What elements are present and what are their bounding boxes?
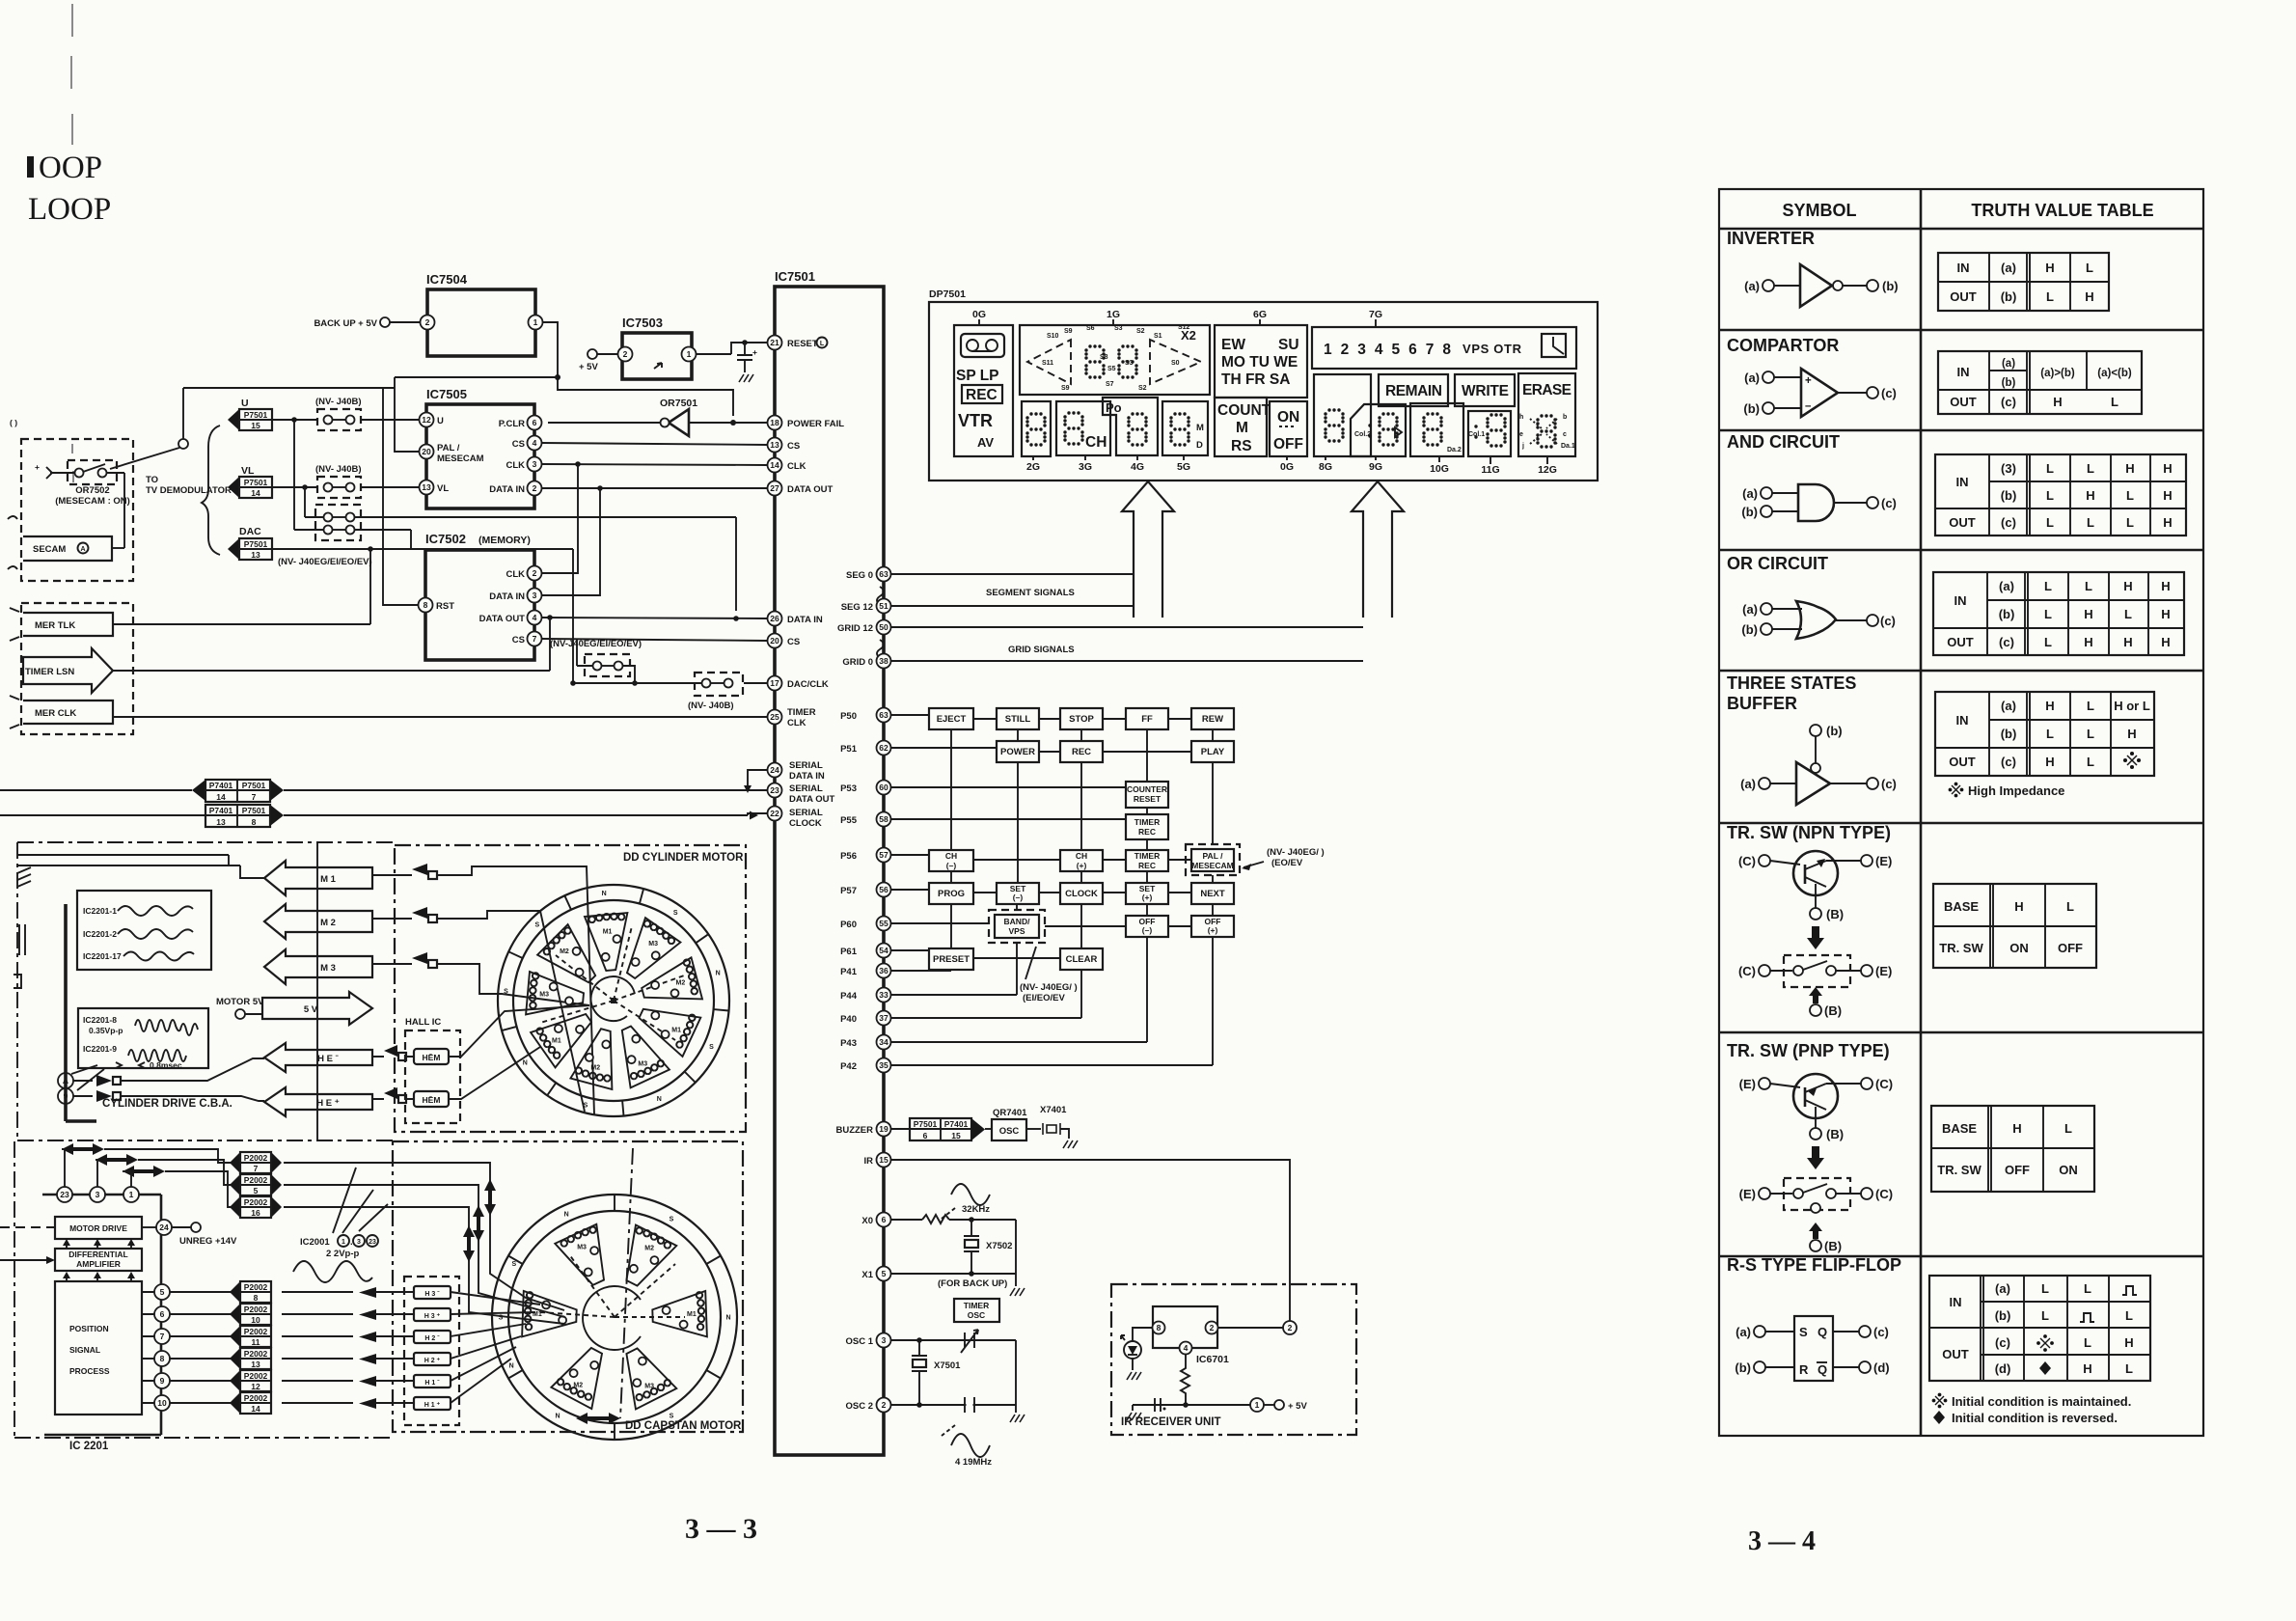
chain boundary top bbox=[17, 841, 395, 843]
thick equivalence arrow bbox=[1807, 926, 1824, 949]
svg-text:REC: REC bbox=[1072, 747, 1091, 757]
svg-text:(+): (+) bbox=[1077, 861, 1087, 870]
pin 20 PAL/MESECAM bbox=[420, 445, 434, 459]
switch equivalent dashed box bbox=[1784, 1178, 1850, 1210]
wire OSC2 bbox=[891, 1404, 1016, 1406]
pin 4 DATA OUT bbox=[528, 611, 542, 625]
three-state buffer symbol bbox=[1796, 762, 1830, 805]
digit box 4G with Po bbox=[1103, 398, 1158, 455]
svg-text:1G: 1G bbox=[1107, 309, 1120, 320]
svg-text:(a): (a) bbox=[1999, 579, 2014, 593]
svg-text:REMAIN: REMAIN bbox=[1385, 383, 1442, 399]
wire RST bbox=[383, 388, 418, 605]
wire horizontal y391 bbox=[395, 376, 558, 378]
svg-text:2 2Vp-p: 2 2Vp-p bbox=[326, 1249, 360, 1259]
svg-text:IN: IN bbox=[1954, 593, 1967, 608]
svg-text:M2: M2 bbox=[560, 948, 569, 955]
svg-text:BASE: BASE bbox=[1944, 899, 1979, 914]
svg-text:VPS: VPS bbox=[1008, 926, 1025, 936]
wire P43 row bbox=[891, 937, 1147, 1042]
block REMAIN bbox=[1379, 374, 1448, 406]
svg-text:2: 2 bbox=[623, 349, 628, 359]
svg-text:VTR: VTR bbox=[958, 411, 993, 430]
svg-text:X7501: X7501 bbox=[934, 1360, 961, 1371]
svg-text:M2: M2 bbox=[676, 979, 686, 986]
H2+ box bbox=[414, 1353, 451, 1365]
svg-text:7G: 7G bbox=[1369, 309, 1382, 320]
leader dashes bbox=[942, 1208, 955, 1219]
svg-text:(E): (E) bbox=[1875, 964, 1892, 978]
squiggle lead bbox=[10, 608, 19, 641]
svg-text:M 1: M 1 bbox=[320, 874, 337, 885]
svg-text:11: 11 bbox=[252, 1337, 260, 1347]
svg-text:P7401: P7401 bbox=[209, 781, 233, 790]
wire PAL/MESECAM riser bbox=[395, 377, 421, 452]
up arrow to switch bbox=[1809, 987, 1822, 1003]
svg-text:(NV- J40B): (NV- J40B) bbox=[315, 397, 362, 407]
pin 56 P57 bbox=[877, 883, 891, 897]
oscillator OSC box bbox=[992, 1119, 1026, 1140]
svg-text:DD CYLINDER MOTOR: DD CYLINDER MOTOR bbox=[623, 852, 744, 864]
PNP truth table grid bbox=[1931, 1106, 2094, 1192]
coil bbox=[544, 927, 571, 954]
svg-text:S12: S12 bbox=[1178, 324, 1190, 331]
pin 25 TIMER CLK bbox=[768, 710, 782, 725]
pin 6 P.CLR bbox=[528, 416, 542, 430]
svg-text:4 19MHz: 4 19MHz bbox=[955, 1457, 992, 1468]
dashed radial index lines bbox=[540, 926, 687, 1040]
key TIMER REC bbox=[1126, 814, 1168, 839]
svg-text:+: + bbox=[1805, 375, 1812, 387]
junction bbox=[969, 1217, 974, 1223]
wire to pin24 bbox=[142, 1226, 156, 1228]
svg-text:ERASE: ERASE bbox=[1522, 382, 1572, 398]
pin 19 BUZZER bbox=[877, 1122, 891, 1137]
wire CLK net bbox=[542, 464, 767, 465]
wire bbox=[1026, 1128, 1041, 1130]
stator arm M1 lower right bbox=[640, 1009, 701, 1057]
svg-text:(–): (–) bbox=[946, 861, 957, 870]
thick double arrow v3 bbox=[463, 1225, 475, 1262]
switch contacts bbox=[1793, 1189, 1803, 1198]
svg-text:H: H bbox=[2012, 1121, 2021, 1136]
pin 8 RST bbox=[419, 598, 433, 613]
svg-text:VPS OTR: VPS OTR bbox=[1462, 342, 1522, 356]
wire buzzer bbox=[891, 1128, 910, 1130]
svg-text:N: N bbox=[725, 1315, 730, 1322]
svg-text:12G: 12G bbox=[1538, 464, 1557, 476]
svg-text:High Impedance: High Impedance bbox=[1968, 783, 2064, 798]
wire P56 row bbox=[891, 855, 1191, 860]
svg-text:P43: P43 bbox=[840, 1038, 857, 1049]
wires H rows to arrows bbox=[282, 1292, 353, 1403]
wire X0 with resistor bbox=[891, 1215, 1016, 1223]
svg-text:L: L bbox=[2046, 461, 2054, 476]
svg-text:INVERTER: INVERTER bbox=[1727, 229, 1815, 248]
coil bbox=[576, 1067, 611, 1081]
svg-text:MER TLK: MER TLK bbox=[35, 620, 75, 631]
wire left stub with arrow bbox=[0, 1259, 47, 1261]
svg-text:M: M bbox=[1236, 420, 1248, 436]
svg-text:(NV- J40EG/ ): (NV- J40EG/ ) bbox=[1267, 847, 1325, 858]
wire bbox=[1833, 1331, 1859, 1333]
coil bbox=[676, 1015, 695, 1048]
svg-text:H E ˉ: H E ˉ bbox=[317, 1054, 339, 1064]
wire row4 bbox=[294, 530, 411, 549]
arrow HE+ bbox=[264, 1087, 372, 1116]
svg-text:(NV- J40EG/EI/EO/EV): (NV- J40EG/EI/EO/EV) bbox=[278, 557, 372, 567]
arrow M2 bbox=[264, 904, 372, 939]
digit box 8G bbox=[1314, 374, 1371, 456]
transistor NPN symbol bbox=[1793, 851, 1838, 895]
svg-text:Da.1: Da.1 bbox=[1561, 443, 1575, 450]
wire arrows to boxes bbox=[376, 1292, 414, 1403]
wire bbox=[1264, 1404, 1274, 1406]
svg-text:(b): (b) bbox=[2001, 488, 2017, 503]
wire bbox=[110, 448, 179, 469]
arrow M3 bbox=[264, 949, 372, 984]
svg-text:DATA OUT: DATA OUT bbox=[787, 484, 834, 495]
wire row3 bbox=[305, 517, 736, 611]
key FF bbox=[1126, 708, 1168, 729]
MER TLK box bbox=[23, 613, 113, 636]
svg-text:S: S bbox=[709, 1044, 714, 1051]
svg-text:IC7502: IC7502 bbox=[425, 532, 466, 546]
ground bbox=[1010, 1415, 1025, 1422]
svg-text:P7501: P7501 bbox=[242, 781, 266, 790]
svg-text:3 — 3: 3 — 3 bbox=[685, 1513, 757, 1545]
svg-text:23: 23 bbox=[770, 785, 779, 795]
wire HEM2 into motor bbox=[449, 1047, 540, 1099]
svg-text:50: 50 bbox=[879, 622, 888, 632]
svg-text:6: 6 bbox=[533, 418, 537, 427]
svg-text:H: H bbox=[2014, 899, 2023, 914]
svg-text:AND CIRCUIT: AND CIRCUIT bbox=[1727, 432, 1840, 452]
wire column 2 bbox=[1017, 729, 1018, 910]
svg-text:(MESECAM : ON): (MESECAM : ON) bbox=[55, 496, 130, 507]
pin 63 SEG0 bbox=[877, 567, 891, 582]
svg-text:S: S bbox=[670, 1414, 674, 1420]
svg-text:POSITION: POSITION bbox=[69, 1324, 109, 1333]
svg-text:P2002: P2002 bbox=[244, 1282, 268, 1292]
connector P2002-14 bbox=[230, 1392, 240, 1414]
svg-text:(a): (a) bbox=[1742, 602, 1758, 617]
svg-text:PRESET: PRESET bbox=[933, 954, 970, 965]
svg-text:L: L bbox=[2046, 289, 2054, 304]
svg-text:L: L bbox=[2085, 579, 2092, 593]
svg-text:L: L bbox=[2087, 699, 2094, 713]
pin 2 of IC7503 bbox=[618, 347, 633, 362]
digit box 10G bbox=[1410, 403, 1463, 456]
svg-text:1: 1 bbox=[533, 317, 538, 327]
svg-text:27: 27 bbox=[770, 483, 779, 493]
svg-text:S: S bbox=[504, 989, 508, 996]
wire X1 bbox=[891, 1273, 1016, 1275]
svg-text:(a): (a) bbox=[2002, 358, 2015, 370]
svg-text:GRID 12: GRID 12 bbox=[837, 623, 873, 634]
SECAM box bbox=[23, 536, 112, 561]
wire bbox=[361, 486, 420, 488]
svg-text:(NV-J40EG/EI/EO/EV): (NV-J40EG/EI/EO/EV) bbox=[550, 639, 642, 649]
svg-text:WRITE: WRITE bbox=[1462, 383, 1509, 399]
svg-text:8: 8 bbox=[1157, 1323, 1162, 1333]
svg-text:M3: M3 bbox=[539, 992, 549, 999]
svg-text:58: 58 bbox=[879, 814, 888, 824]
svg-text:EJECT: EJECT bbox=[937, 714, 967, 725]
pin 55 P60 bbox=[877, 917, 891, 931]
svg-text:P50: P50 bbox=[840, 711, 857, 722]
node pin 2 outer bbox=[1283, 1321, 1297, 1334]
svg-text:SECAM: SECAM bbox=[33, 544, 66, 555]
wire bbox=[1834, 502, 1868, 504]
H3- box bbox=[414, 1286, 451, 1299]
svg-text:63: 63 bbox=[879, 569, 888, 579]
svg-text:2: 2 bbox=[533, 483, 537, 493]
capacitor small bbox=[1155, 1398, 1161, 1412]
svg-text:IR: IR bbox=[864, 1156, 874, 1167]
svg-text:REW: REW bbox=[1202, 714, 1223, 725]
node 0.8msec bbox=[116, 1062, 145, 1068]
svg-text:S9: S9 bbox=[1061, 385, 1070, 392]
svg-text:P42: P42 bbox=[840, 1061, 857, 1072]
svg-text:22: 22 bbox=[770, 809, 779, 818]
svg-text:(C): (C) bbox=[1738, 964, 1756, 978]
svg-text:(b): (b) bbox=[1826, 724, 1843, 738]
node pin 9 bbox=[154, 1373, 170, 1388]
wire M3 into motor bbox=[372, 964, 589, 1005]
svg-text:OUT: OUT bbox=[1942, 1347, 1969, 1361]
svg-text:(c): (c) bbox=[2001, 515, 2016, 530]
svg-text:DATA IN: DATA IN bbox=[787, 615, 823, 625]
svg-text:S2: S2 bbox=[1136, 328, 1145, 335]
svg-text:N: N bbox=[509, 1362, 514, 1369]
coil bbox=[631, 1060, 664, 1079]
svg-text:PLAY: PLAY bbox=[1201, 747, 1225, 757]
svg-text:IN: IN bbox=[1957, 261, 1970, 275]
svg-text:PAL /: PAL / bbox=[437, 443, 460, 453]
IC7504 box bbox=[427, 289, 535, 356]
svg-text:14: 14 bbox=[216, 792, 226, 802]
svg-text:BUFFER: BUFFER bbox=[1727, 694, 1797, 713]
svg-text:(+): (+) bbox=[1208, 925, 1218, 935]
H sensor dashed box bbox=[404, 1277, 459, 1425]
svg-text:DATA OUT: DATA OUT bbox=[479, 614, 526, 624]
junction bbox=[730, 420, 736, 426]
chain boundary left bbox=[16, 842, 18, 1140]
wire P61 row bbox=[891, 950, 1060, 958]
wire D1 left drop bbox=[576, 639, 578, 666]
svg-text:CLEAR: CLEAR bbox=[1066, 954, 1098, 965]
wire bbox=[1770, 1084, 1800, 1087]
connector P2002-7 bbox=[230, 1152, 240, 1173]
wire left stub bbox=[0, 1226, 55, 1228]
wire IR long bbox=[891, 1160, 1290, 1321]
connector P2002-5 bbox=[230, 1174, 240, 1195]
solid boundary right of arrows bbox=[316, 842, 318, 1140]
key EJECT bbox=[929, 708, 973, 729]
svg-text:IC6701: IC6701 bbox=[1196, 1354, 1229, 1365]
wire P41 row bbox=[891, 970, 951, 971]
wire MER TLK to DAC riser bbox=[113, 549, 370, 624]
svg-text:16: 16 bbox=[251, 1208, 260, 1218]
svg-text:X1: X1 bbox=[861, 1270, 873, 1280]
node pin 1 bbox=[123, 1187, 139, 1202]
svg-text:L: L bbox=[2084, 1281, 2091, 1296]
wire M1 into motor bbox=[372, 866, 594, 1114]
svg-text:P7401: P7401 bbox=[944, 1119, 969, 1129]
svg-text:IC2201-2: IC2201-2 bbox=[83, 929, 117, 939]
svg-text:(a): (a) bbox=[1995, 1281, 2010, 1296]
node pin 23 bbox=[57, 1187, 72, 1202]
svg-text:H 2 ˉ: H 2 ˉ bbox=[424, 1335, 440, 1342]
svg-text:L: L bbox=[2044, 635, 2052, 649]
svg-text:POWER: POWER bbox=[1000, 747, 1035, 757]
cable hatch marks bbox=[14, 867, 31, 988]
svg-text:IC2001: IC2001 bbox=[300, 1237, 330, 1248]
wire bbox=[1770, 970, 1792, 972]
jumper connector dashed bbox=[317, 409, 361, 430]
key CH minus bbox=[929, 850, 973, 871]
svg-text:OFF: OFF bbox=[2005, 1163, 2030, 1177]
svg-text:H: H bbox=[2163, 488, 2172, 503]
pin 3 DATA IN bbox=[528, 589, 542, 603]
pin 15 IR bbox=[877, 1153, 891, 1168]
svg-text:+ 5V: + 5V bbox=[1288, 1401, 1307, 1412]
wire DAC to right bbox=[272, 549, 573, 683]
key OFF minus bbox=[1126, 916, 1168, 937]
display panel DP7501 bbox=[929, 302, 1598, 481]
wire column 4 bbox=[1146, 729, 1148, 916]
thick double arrow h2 bbox=[96, 1154, 138, 1166]
svg-text:(B): (B) bbox=[1824, 1239, 1842, 1253]
coil bbox=[536, 1028, 560, 1058]
svg-text:SEG 12: SEG 12 bbox=[841, 602, 873, 613]
junction bbox=[1183, 1402, 1189, 1408]
ring dividers bbox=[508, 1195, 721, 1440]
wire DATA OUT to pin26 bbox=[542, 618, 767, 618]
connector arrow HE- bbox=[384, 1045, 397, 1057]
svg-text:H: H bbox=[2083, 1361, 2091, 1376]
junction bbox=[575, 461, 581, 467]
pin 12 U bbox=[420, 413, 434, 427]
svg-text:S3: S3 bbox=[1114, 325, 1123, 332]
svg-text:(c): (c) bbox=[1999, 635, 2014, 649]
svg-text:DATA IN: DATA IN bbox=[489, 484, 525, 495]
svg-text:10: 10 bbox=[251, 1315, 260, 1325]
connector arrow M2 feed bbox=[412, 907, 427, 919]
pin 58 P55 bbox=[877, 812, 891, 827]
key BAND/VPS dashed bbox=[989, 910, 1045, 943]
svg-text:S11: S11 bbox=[1042, 360, 1053, 367]
key OFF plus bbox=[1191, 916, 1234, 937]
svg-text:0G: 0G bbox=[972, 309, 986, 320]
svg-text:H 1 ˉ: H 1 ˉ bbox=[424, 1380, 440, 1387]
svg-text:DD CAPSTAN MOTOR: DD CAPSTAN MOTOR bbox=[625, 1420, 742, 1432]
svg-text:H: H bbox=[2045, 261, 2054, 275]
svg-text:6G: 6G bbox=[1253, 309, 1267, 320]
node REC boxed bbox=[962, 385, 1002, 403]
wire leader bbox=[1244, 862, 1264, 867]
svg-text:OUT: OUT bbox=[1950, 289, 1977, 304]
svg-text:(C): (C) bbox=[1738, 854, 1756, 868]
svg-text:5 V: 5 V bbox=[304, 1004, 318, 1015]
svg-text:M2: M2 bbox=[573, 1383, 583, 1389]
svg-text:55: 55 bbox=[879, 919, 888, 928]
svg-text:(a): (a) bbox=[2001, 699, 2016, 713]
connector arrow M3 feed bbox=[412, 952, 427, 964]
stator arm M1 left bbox=[522, 1291, 577, 1336]
wire bbox=[58, 473, 124, 526]
node circled A bbox=[58, 1073, 73, 1088]
wire P50 row bbox=[891, 715, 1191, 719]
wire P44 row bbox=[891, 943, 1017, 995]
svg-text:54: 54 bbox=[879, 946, 888, 955]
svg-text:P2002: P2002 bbox=[244, 1153, 268, 1163]
svg-text:S0: S0 bbox=[1171, 360, 1180, 367]
POSITION SIGNAL PROCESS box bbox=[55, 1281, 142, 1415]
node TIMER LSN arrow bbox=[23, 648, 113, 693]
block COUNT M RS bbox=[1215, 398, 1267, 456]
svg-text:3: 3 bbox=[357, 1239, 361, 1246]
wire bbox=[1920, 189, 1923, 1436]
digit box 3G bbox=[1056, 401, 1110, 455]
svg-text:SIGNAL: SIGNAL bbox=[69, 1345, 100, 1355]
connector arrowhead bbox=[971, 1118, 985, 1140]
svg-text:TR. SW: TR. SW bbox=[1939, 941, 1983, 955]
thick double arrow v2 bbox=[473, 1205, 484, 1242]
stator arm M3 bottom right bbox=[626, 1348, 676, 1409]
svg-text:Da.2: Da.2 bbox=[1447, 447, 1462, 453]
connector P2002-8 bbox=[230, 1281, 240, 1303]
junction bbox=[123, 525, 125, 527]
svg-text:2: 2 bbox=[533, 568, 537, 578]
svg-text:(a): (a) bbox=[1744, 371, 1760, 385]
svg-text:H 3 ⁺: H 3 ⁺ bbox=[424, 1313, 441, 1320]
svg-text:6: 6 bbox=[160, 1309, 165, 1319]
svg-text:P41: P41 bbox=[840, 967, 858, 977]
svg-text:CLOCK: CLOCK bbox=[1065, 889, 1098, 899]
HEM box 2 bbox=[414, 1091, 449, 1107]
wire bbox=[361, 419, 420, 421]
svg-text:15: 15 bbox=[951, 1131, 961, 1140]
svg-text:0.35Vp-p: 0.35Vp-p bbox=[89, 1026, 123, 1035]
svg-text:OR7502: OR7502 bbox=[75, 485, 109, 496]
svg-text:5: 5 bbox=[882, 1269, 887, 1278]
wire P60 row bbox=[891, 923, 1191, 926]
wire bbox=[1765, 1366, 1794, 1368]
svg-text:3: 3 bbox=[882, 1335, 887, 1345]
svg-text:Po: Po bbox=[1106, 400, 1122, 415]
pin 38 GRID0 bbox=[877, 654, 891, 669]
svg-text:REC: REC bbox=[966, 387, 998, 403]
key CH plus bbox=[1060, 850, 1103, 871]
svg-text:OUT: OUT bbox=[1949, 515, 1976, 530]
node terminal (c) bbox=[1867, 778, 1878, 789]
double jumper connector dashed bbox=[315, 505, 361, 540]
svg-text:3 — 4: 3 — 4 bbox=[1748, 1526, 1816, 1556]
svg-text:13: 13 bbox=[422, 482, 431, 492]
wire bbox=[372, 1098, 414, 1100]
svg-text:3: 3 bbox=[96, 1190, 100, 1199]
wire bbox=[172, 1226, 191, 1228]
svg-text:TR. SW (PNP TYPE): TR. SW (PNP TYPE) bbox=[1727, 1041, 1890, 1060]
svg-text:L: L bbox=[2087, 515, 2094, 530]
svg-text:P7501: P7501 bbox=[914, 1119, 938, 1129]
pin 2 inner bbox=[1206, 1322, 1218, 1334]
wire 9 to HE+ bbox=[73, 1096, 264, 1101]
svg-text:(–): (–) bbox=[1013, 893, 1024, 902]
junction bbox=[597, 485, 603, 491]
